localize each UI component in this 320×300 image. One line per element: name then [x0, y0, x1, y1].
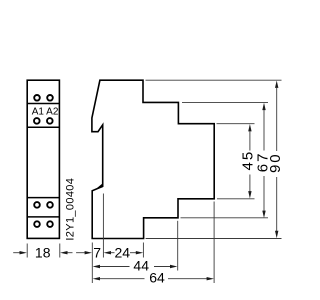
extension line 45 bottom	[217, 198, 255, 200]
terminal screw A1	[34, 118, 40, 124]
svg-text:18: 18	[35, 245, 51, 261]
front view outline	[27, 80, 59, 238]
terminal screw top-left	[34, 95, 40, 101]
dimension 44 line with arrows	[93, 265, 178, 268]
extension line 18 right	[59, 244, 61, 258]
extension line 90 bottom	[146, 238, 282, 240]
extension line 67 bottom	[181, 217, 269, 219]
svg-text:A1 A2: A1 A2	[32, 106, 59, 117]
dimension 67 line with arrows	[262, 103, 265, 218]
svg-text:I2Y1_00404: I2Y1_00404	[65, 178, 77, 241]
extension line 7/44/64 left	[91, 243, 93, 284]
DIN clip hook barb	[95, 183, 103, 190]
extension line 24 right	[142, 243, 144, 258]
dimension 45 line with arrows	[248, 124, 251, 199]
extension line 44 right	[177, 221, 179, 271]
extension line 90 top	[146, 79, 282, 81]
terminal screw bottom row1 right	[47, 202, 53, 208]
terminal screw bottom row2 left	[34, 221, 40, 227]
svg-text:7: 7	[93, 245, 101, 261]
svg-text:64: 64	[149, 270, 165, 286]
terminal screw A2	[47, 118, 53, 124]
dimension 18 arrow right	[60, 251, 72, 254]
dimension 7 arrow left	[76, 251, 92, 254]
terminal screw bottom row1 left	[34, 202, 40, 208]
dimension 24 line with arrows	[104, 251, 144, 254]
terminal screw bottom row2 right	[47, 221, 53, 227]
svg-text:44: 44	[133, 257, 149, 273]
svg-text:90: 90	[267, 152, 284, 173]
front view section line 1	[27, 103, 61, 105]
extension line 67 top	[182, 101, 268, 103]
dimension 90 line with arrows	[275, 81, 278, 239]
extension line 18 left	[26, 244, 28, 258]
side view outline	[92, 80, 214, 238]
extension line 64 right	[213, 202, 215, 284]
dimension 18 arrow left	[13, 251, 27, 254]
extension line 7 right / 24 left	[102, 194, 104, 258]
extension line 45 top	[217, 123, 255, 125]
front view section line 3	[27, 197, 61, 199]
front view section line 4	[27, 216, 61, 218]
svg-text:24: 24	[115, 245, 131, 261]
front view section line 2	[27, 126, 61, 128]
dimension 64 line with arrows	[93, 277, 214, 280]
terminal screw top-right	[47, 95, 53, 101]
